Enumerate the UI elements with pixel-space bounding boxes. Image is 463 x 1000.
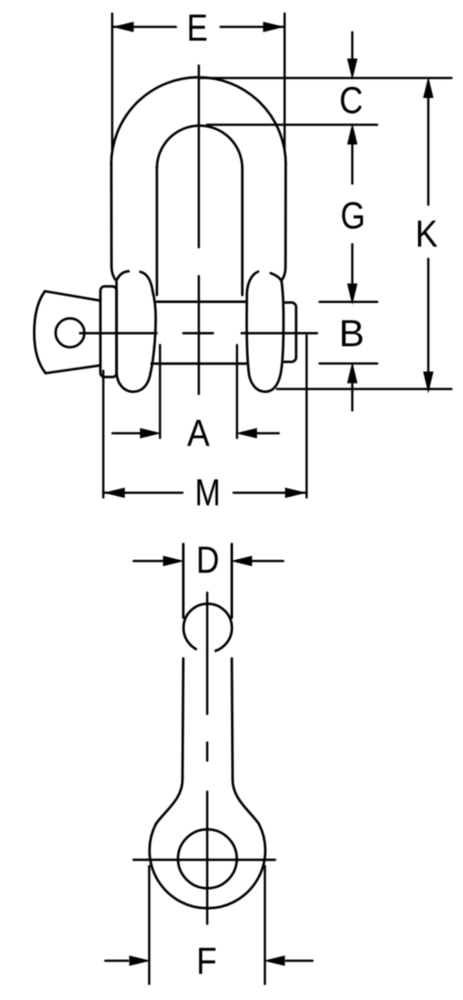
right outer leg + right ear right edge [249,163,286,392]
shank right line [231,544,234,779]
label A [187,420,209,446]
dim M dimension lines [103,492,306,494]
left ear top arc left piece [117,271,128,279]
label C [341,87,362,114]
inner bow left leg [156,167,159,295]
left flare into eye [156,779,183,824]
dim M extension lines [103,335,306,497]
dim C lower arrow / G top arrow [351,145,353,184]
dim E arrowheads [112,22,284,32]
pin shank bottom edge [152,362,247,365]
pin threaded end cap [283,303,296,362]
pin collar [100,286,116,377]
label K [418,221,437,247]
dim C / G reference line (top of eye opening) [207,124,377,126]
vertical centerline of side view [206,593,208,924]
inner bow arc [157,126,242,169]
dim B extension lines [320,302,378,364]
outer bow arc [111,77,286,164]
inner bow right leg [241,167,244,295]
label M [197,479,218,505]
dim A extension lines [160,345,237,438]
label G [342,202,363,229]
dim E dimension lines [112,26,284,28]
right ear top arc right piece [271,273,282,280]
shank left line [181,544,184,779]
label B [342,320,362,346]
right ear left edge + top arc left piece [247,272,258,372]
pin shank top edge [157,300,247,303]
left outer leg + left ear outline [111,163,150,392]
left ear right edge + top arc right piece [140,272,155,374]
dim C top reference line (top of bow) [200,77,452,79]
dim K arrowheads [423,77,433,394]
dim K bottom reference line (bottom of ears) [277,388,452,390]
dim F arrowheads [129,956,285,966]
dim D arrow lines [134,560,284,562]
label E [189,15,206,41]
label F [199,948,215,974]
dim F arrow lines [105,960,312,962]
pin head hole [56,318,85,347]
eye horizontal centerline [134,859,276,861]
vertical centerline of bow [198,66,200,395]
dim F extension lines [149,866,265,984]
dim A arrow lines [112,432,278,434]
dim G bottom arrow / B top arrow [351,244,353,283]
dim C upper arrow [351,32,353,59]
dim A arrowheads [140,428,257,438]
bow cross-section circle [184,604,232,652]
eye pin hole circle [178,829,237,888]
label D [199,547,218,573]
dim E extension lines [112,14,284,151]
dim M arrowheads [103,488,306,498]
dim D arrowheads [163,556,252,566]
dim K line [427,82,429,385]
eye outer arc [149,824,265,908]
pin horizontal centerline [80,332,317,334]
screw pin head [34,291,100,373]
right flare into eye [233,779,259,824]
dim B bottom arrow [351,384,353,411]
